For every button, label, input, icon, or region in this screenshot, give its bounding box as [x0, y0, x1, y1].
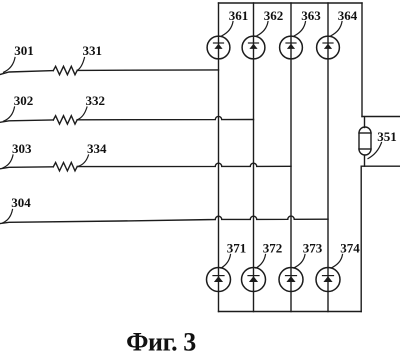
label 351: [368, 129, 397, 159]
diode D361: [207, 36, 230, 59]
lamp 351 body: [359, 127, 371, 155]
label 361: [222, 8, 249, 36]
diode D371: [207, 268, 231, 292]
label 372: [256, 240, 282, 268]
wire right bus lower (node B to bottom rail): [360, 166, 362, 311]
diode D373: [279, 268, 303, 292]
wire column 4: [327, 3, 329, 312]
svg-text:332: 332: [86, 93, 106, 108]
label 374: [331, 240, 360, 268]
svg-text:301: 301: [14, 43, 34, 58]
svg-text:304: 304: [11, 195, 31, 210]
wire input row 302 with hop over column 1: [77, 116, 253, 119]
label 362: [257, 8, 284, 36]
svg-text:302: 302: [14, 93, 34, 108]
svg-text:363: 363: [301, 8, 321, 23]
diode D362: [242, 36, 265, 59]
wire input row 304 with hops over columns 1,2,3: [0, 216, 328, 224]
svg-text:361: 361: [229, 8, 249, 23]
label 303: [3, 141, 32, 168]
diode D364: [317, 36, 340, 59]
resistor R334: [53, 163, 77, 171]
wire right bus upper (top rail to node A): [361, 3, 363, 117]
svg-text:303: 303: [12, 141, 32, 156]
wire bottom rail: [219, 311, 362, 313]
wire input row 303 (left of resistor): [0, 167, 53, 169]
label 363: [294, 8, 321, 36]
label 304: [3, 195, 31, 223]
diode D372: [242, 268, 266, 292]
label 301: [4, 43, 34, 72]
wire lead lamp 351 bottom to node B: [364, 156, 366, 167]
resistor R332: [53, 116, 77, 124]
label 364: [331, 8, 358, 36]
wire top rail: [219, 2, 363, 4]
wire lead node A to lamp 351 top: [364, 117, 366, 128]
wire input row 302 (left of resistor): [0, 120, 53, 122]
label 331: [77, 43, 102, 70]
label 334: [77, 141, 107, 166]
svg-text:351: 351: [377, 129, 397, 144]
label 302: [4, 93, 34, 121]
label 371: [221, 240, 246, 268]
svg-text:364: 364: [338, 8, 358, 23]
svg-text:371: 371: [227, 240, 247, 255]
svg-text:334: 334: [87, 141, 107, 156]
wire node A to right edge: [362, 116, 400, 118]
svg-text:374: 374: [340, 240, 360, 255]
svg-text:331: 331: [83, 43, 103, 58]
wire column 3: [290, 3, 292, 312]
wire column 1: [218, 3, 220, 312]
wire column 2: [253, 3, 255, 312]
svg-text:362: 362: [264, 8, 284, 23]
wire input row 301 (left of resistor): [0, 71, 53, 75]
wire input row 303 with hops over columns 1,2: [77, 163, 291, 166]
wire input row 301 (resistor to column 1): [77, 69, 218, 72]
wire node B to right edge: [362, 165, 400, 167]
svg-text:372: 372: [263, 240, 283, 255]
label 373: [294, 240, 323, 268]
svg-text:373: 373: [303, 240, 323, 255]
label 332: [77, 93, 105, 120]
diode D363: [280, 36, 303, 59]
diode D374: [316, 268, 340, 292]
resistor R331: [53, 66, 77, 74]
svg-text:Фиг. 3: Фиг. 3: [126, 328, 196, 354]
